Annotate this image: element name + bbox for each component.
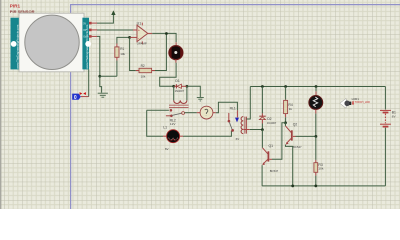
svg-text:5V: 5V [83, 23, 86, 25]
resistor R4 [284, 87, 293, 118]
wire lamp right to RL1 contact [183, 131, 231, 136]
relay RL2 contact [147, 109, 185, 126]
node junction Q2 collector [284, 121, 287, 124]
wire op-amp output to buzzer [152, 33, 176, 42]
resistor R3 [314, 136, 324, 175]
wire Q1 emitter to bottom rail [261, 165, 263, 186]
svg-text:Q1: Q1 [269, 144, 274, 148]
ground near AC source [187, 86, 204, 101]
wire R1 bottom to ground node [116, 61, 118, 77]
svg-text:12V: 12V [170, 122, 176, 126]
wire LDR bottom to divider node [315, 114, 317, 137]
wire AC source to RL1 coil top [216, 102, 238, 113]
svg-text:OPAMP: OPAMP [137, 42, 147, 46]
node junction rail D2 [261, 85, 264, 88]
wire R3 bottom to rail [315, 176, 317, 186]
node junction R3 rail [314, 185, 317, 188]
wire rail to RL1 coil right [246, 87, 250, 120]
wire VCC purple rail [71, 5, 400, 209]
wire R1 top to inverting input node [117, 37, 130, 43]
PIR left header strip [11, 18, 19, 70]
wire inverting node down to R2 left [130, 37, 139, 70]
logic state probe [72, 92, 89, 101]
wire Q2 collector node to Q1 base [269, 123, 285, 160]
svg-text:OP: OP [83, 30, 87, 32]
wire Q2 base to LDR node [296, 135, 316, 137]
svg-text:1N4007: 1N4007 [175, 89, 185, 93]
LDR1 TORCH_LDR [309, 87, 370, 114]
wire Q2 emitter to bottom rail [286, 145, 293, 186]
wire buzzer bottom to D1 left node [160, 63, 176, 87]
node junction output feedback [165, 32, 168, 35]
node junction rail LDR [315, 85, 318, 88]
svg-text:6V: 6V [236, 137, 240, 141]
transistor Q1 BC547 [262, 144, 278, 173]
svg-text:D1: D1 [175, 79, 179, 83]
PIR board [19, 13, 84, 72]
lamp L1 [163, 126, 183, 151]
torch toggle arrows [352, 101, 354, 103]
ground [98, 76, 108, 97]
svg-text:L1: L1 [163, 126, 167, 130]
relay RL2 coil [169, 86, 189, 107]
svg-text:www.TheEngineeringProjects.com: www.TheEngineeringProjects.com [16, 24, 20, 69]
svg-text:PIR1: PIR1 [10, 3, 21, 8]
buzzer [169, 42, 183, 63]
wire PIR GND pin down to ground node [92, 36, 100, 76]
wire battery negative to bottom rail [384, 128, 386, 186]
battery B1 [380, 87, 397, 127]
wire inverting node to op-amp [130, 36, 137, 38]
svg-text:10k: 10k [318, 167, 323, 171]
pin pad GND [89, 35, 92, 38]
resistor R2 [139, 64, 155, 79]
svg-text:TORCH_LDR: TORCH_LDR [355, 101, 370, 104]
wire ground node to R1 bottom [100, 75, 117, 77]
pin pad VCC [89, 22, 92, 25]
wire RL2 NO contact to AC source [185, 112, 201, 114]
wire PIR VCC pin to power arrow [92, 15, 114, 24]
wire Q2 collector vertical [285, 123, 287, 126]
svg-text:D2: D2 [267, 117, 271, 121]
svg-text:1N4007: 1N4007 [267, 121, 277, 125]
node junction D1 right [186, 85, 189, 88]
power symbol VCC arrow [111, 10, 115, 15]
torch icon [340, 98, 347, 108]
svg-text:1k: 1k [289, 107, 293, 111]
wire R2 right to output node [155, 34, 166, 71]
node junction inverting input [128, 36, 131, 39]
PIR right header strip [82, 18, 89, 70]
wire bottom ground rail [262, 185, 385, 187]
wire logic state to PIR enable pin [88, 69, 90, 96]
svg-text:0: 0 [74, 95, 77, 101]
wire D2 node to Q1 collector [261, 130, 263, 148]
svg-text:10k: 10k [141, 74, 146, 78]
AC source alternator [200, 106, 216, 119]
diode D2 1N4007 [259, 87, 277, 130]
svg-text:BC547: BC547 [293, 145, 302, 149]
pin pad OUT [89, 29, 92, 32]
op-amp U1 [137, 22, 153, 46]
svg-text:BC547: BC547 [270, 169, 279, 173]
resistor R1 [115, 44, 126, 61]
node junction divider [315, 135, 318, 138]
PIR sensor module PIR1 [10, 3, 92, 71]
wire RL2 NC contact down to lamp [147, 110, 167, 136]
node junction D2 bottom [261, 128, 264, 131]
wire R4 bottom to Q2 collector node [285, 117, 287, 123]
node junction rail R4 [284, 85, 287, 88]
svg-text:R2: R2 [141, 64, 145, 68]
node junction at ground net [98, 75, 101, 78]
relay RL1 [228, 107, 247, 142]
node junction Q2 emitter rail [291, 185, 294, 188]
window edge line [0, 0, 1, 209]
wire PIR OUT to op-amp non-inverting input [92, 29, 138, 31]
PIR dome [25, 15, 79, 69]
svg-text:10k: 10k [120, 52, 125, 56]
svg-text:RL1: RL1 [230, 107, 236, 111]
transistor Q2 BC547 [286, 122, 302, 149]
diode D1 1N4007 [174, 79, 187, 93]
wire top supply rail [250, 86, 385, 88]
svg-text:R1: R1 [120, 47, 124, 51]
node junction D1 left [172, 85, 175, 88]
wire RL1 coil bottom to D2 node [244, 129, 263, 131]
svg-text:6V: 6V [165, 147, 169, 151]
svg-text:Q2: Q2 [293, 122, 298, 126]
